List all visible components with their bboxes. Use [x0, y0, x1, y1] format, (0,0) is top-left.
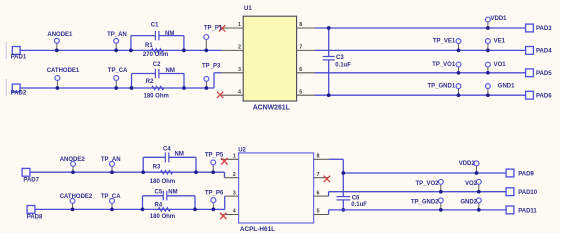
svg-text:TP_CA: TP_CA	[101, 194, 121, 200]
svg-text:NM: NM	[165, 31, 174, 37]
svg-text:7: 7	[299, 45, 302, 51]
svg-text:TP_AN: TP_AN	[107, 32, 127, 38]
svg-text:1: 1	[233, 154, 236, 160]
svg-text:5: 5	[317, 209, 320, 215]
svg-text:R3: R3	[153, 165, 161, 171]
svg-text:R4: R4	[155, 202, 163, 208]
svg-text:TP_P1: TP_P1	[204, 26, 223, 32]
svg-text:TP_P6: TP_P6	[205, 190, 224, 196]
svg-text:0.1uF: 0.1uF	[335, 62, 351, 68]
svg-text:VDD2: VDD2	[459, 161, 476, 167]
svg-text:VE1: VE1	[494, 39, 506, 45]
svg-text:GND1: GND1	[498, 84, 515, 90]
svg-text:PAD10: PAD10	[518, 190, 538, 196]
svg-text:C3: C3	[336, 55, 344, 61]
svg-text:5: 5	[299, 89, 302, 95]
svg-text:PAD2: PAD2	[11, 91, 27, 97]
svg-text:TP_GND1: TP_GND1	[428, 84, 456, 90]
svg-text:TP_CA: TP_CA	[108, 68, 128, 74]
svg-text:3: 3	[238, 67, 241, 73]
svg-text:TP_P3: TP_P3	[202, 63, 221, 69]
svg-text:C1: C1	[151, 22, 159, 28]
svg-text:TP_P5: TP_P5	[205, 152, 224, 158]
svg-text:0.1uF: 0.1uF	[351, 202, 367, 208]
svg-text:PAD5: PAD5	[536, 71, 552, 77]
svg-text:CATHODE2: CATHODE2	[60, 194, 93, 200]
svg-text:CATHODE1: CATHODE1	[47, 68, 80, 74]
svg-text:TP_VO1: TP_VO1	[432, 62, 456, 68]
svg-text:VO2: VO2	[465, 181, 478, 187]
svg-text:R1: R1	[145, 43, 153, 49]
svg-text:8: 8	[317, 154, 320, 160]
svg-text:7: 7	[317, 172, 320, 178]
svg-text:1: 1	[238, 22, 241, 28]
svg-text:3: 3	[233, 190, 236, 196]
svg-text:PAD3: PAD3	[536, 26, 552, 32]
svg-text:C2: C2	[153, 62, 161, 68]
svg-text:C4: C4	[163, 147, 171, 153]
svg-text:ACPL-H61L: ACPL-H61L	[240, 226, 275, 233]
svg-text:ANODE2: ANODE2	[60, 157, 86, 163]
svg-text:2: 2	[233, 172, 236, 178]
svg-text:TP_AN: TP_AN	[101, 157, 121, 163]
svg-text:2: 2	[238, 45, 241, 51]
svg-text:270 Ohm: 270 Ohm	[143, 52, 168, 58]
svg-text:TP_VE1: TP_VE1	[433, 39, 456, 45]
svg-text:PAD8: PAD8	[27, 214, 43, 220]
svg-text:180 Ohm: 180 Ohm	[150, 179, 175, 185]
svg-text:6: 6	[299, 67, 302, 73]
svg-text:VDD1: VDD1	[491, 16, 508, 22]
svg-text:PAD11: PAD11	[518, 208, 537, 214]
svg-text:180 Ohm: 180 Ohm	[144, 94, 169, 100]
svg-text:8: 8	[299, 22, 302, 28]
svg-text:C5: C5	[155, 190, 163, 196]
svg-text:ANODE1: ANODE1	[47, 32, 73, 38]
svg-text:PAD4: PAD4	[536, 49, 552, 55]
svg-text:PAD7: PAD7	[23, 178, 39, 184]
svg-text:TP_GND2: TP_GND2	[411, 199, 439, 205]
svg-text:VO1: VO1	[494, 62, 507, 68]
svg-text:U1: U1	[244, 6, 252, 12]
svg-text:4: 4	[238, 89, 241, 95]
svg-text:GND2: GND2	[460, 199, 477, 205]
svg-text:NM: NM	[166, 68, 175, 74]
svg-text:6: 6	[317, 190, 320, 196]
svg-text:U2: U2	[238, 147, 246, 153]
svg-text:R2: R2	[146, 79, 154, 85]
svg-text:PAD6: PAD6	[536, 93, 552, 99]
svg-text:ACNW261L: ACNW261L	[253, 105, 290, 112]
svg-text:TP_VO2: TP_VO2	[415, 181, 439, 187]
svg-text:PAD1: PAD1	[11, 55, 27, 61]
svg-text:NM: NM	[168, 190, 177, 196]
svg-text:C6: C6	[352, 195, 360, 201]
svg-text:4: 4	[233, 209, 236, 215]
svg-text:NM: NM	[175, 152, 184, 158]
svg-text:PAD9: PAD9	[518, 171, 534, 177]
svg-text:180 Ohm: 180 Ohm	[150, 214, 175, 220]
